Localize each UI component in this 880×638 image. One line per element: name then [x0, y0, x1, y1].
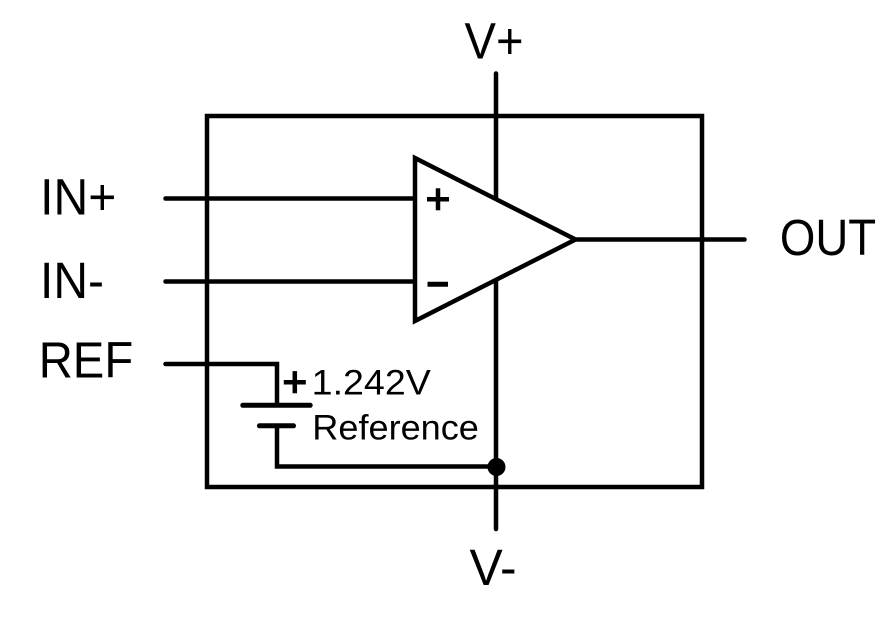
pin label V+	[465, 13, 524, 70]
comparator noninverting + mark	[427, 188, 449, 210]
junction dot on V- net	[488, 458, 506, 476]
pin label OUT	[780, 209, 876, 266]
svg-text:IN-: IN-	[40, 252, 104, 309]
wire IN+ input	[166, 196, 416, 201]
svg-text:IN+: IN+	[40, 168, 116, 225]
svg-text:V+: V+	[465, 13, 524, 70]
pin label V-	[470, 539, 517, 596]
wire battery negative to V- net	[277, 426, 496, 467]
pin label IN+	[40, 168, 116, 225]
wire REF input	[166, 364, 278, 405]
wire OUT output	[576, 237, 745, 242]
comparator U1 triangle	[415, 158, 576, 321]
svg-text:OUT: OUT	[780, 209, 876, 266]
svg-text:REF: REF	[39, 331, 134, 388]
svg-text:Reference: Reference	[312, 408, 479, 447]
wire V+ supply vertical (through comparator to V-)	[494, 74, 499, 530]
battery reference positive plate	[243, 403, 310, 408]
pin label REF	[39, 331, 134, 388]
svg-text:V-: V-	[470, 539, 517, 596]
IC outline box	[207, 116, 702, 487]
battery plus polarity mark	[284, 371, 306, 393]
value label 1.242V	[312, 363, 432, 402]
comparator inverting - mark	[428, 282, 449, 287]
battery reference negative plate	[260, 423, 294, 428]
wire IN- input	[166, 279, 416, 284]
value label Reference	[312, 408, 479, 447]
pin label IN-	[40, 252, 104, 309]
svg-text:1.242V: 1.242V	[312, 363, 432, 402]
